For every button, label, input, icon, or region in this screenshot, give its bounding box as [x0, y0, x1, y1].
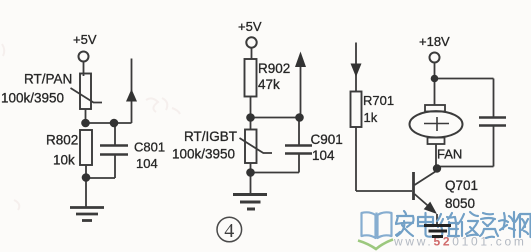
svg-text:C901: C901 [311, 132, 343, 147]
svg-text:104: 104 [136, 156, 158, 171]
svg-text:47k: 47k [258, 77, 280, 92]
svg-text:4: 4 [224, 220, 234, 242]
svg-text:104: 104 [312, 148, 335, 163]
svg-text:R701: R701 [363, 93, 394, 108]
svg-text:R802: R802 [46, 133, 78, 148]
svg-text:+5V: +5V [238, 19, 262, 34]
svg-text:www.520101.com: www.520101.com [393, 235, 527, 249]
svg-text:RT/PAN: RT/PAN [24, 72, 72, 87]
svg-text:+18V: +18V [419, 34, 450, 49]
svg-text:10k: 10k [53, 153, 75, 168]
svg-text:C801: C801 [134, 140, 165, 155]
svg-text:FAN: FAN [437, 147, 462, 162]
svg-text:1k: 1k [364, 110, 378, 125]
svg-text:8050: 8050 [445, 196, 475, 211]
svg-text:Q701: Q701 [445, 178, 478, 193]
svg-text:RT/IGBT: RT/IGBT [184, 129, 237, 144]
svg-text:100k/3950: 100k/3950 [1, 91, 64, 106]
svg-text:100k/3950: 100k/3950 [172, 147, 235, 162]
svg-text:+5V: +5V [73, 32, 97, 47]
svg-text:R902: R902 [258, 61, 290, 76]
